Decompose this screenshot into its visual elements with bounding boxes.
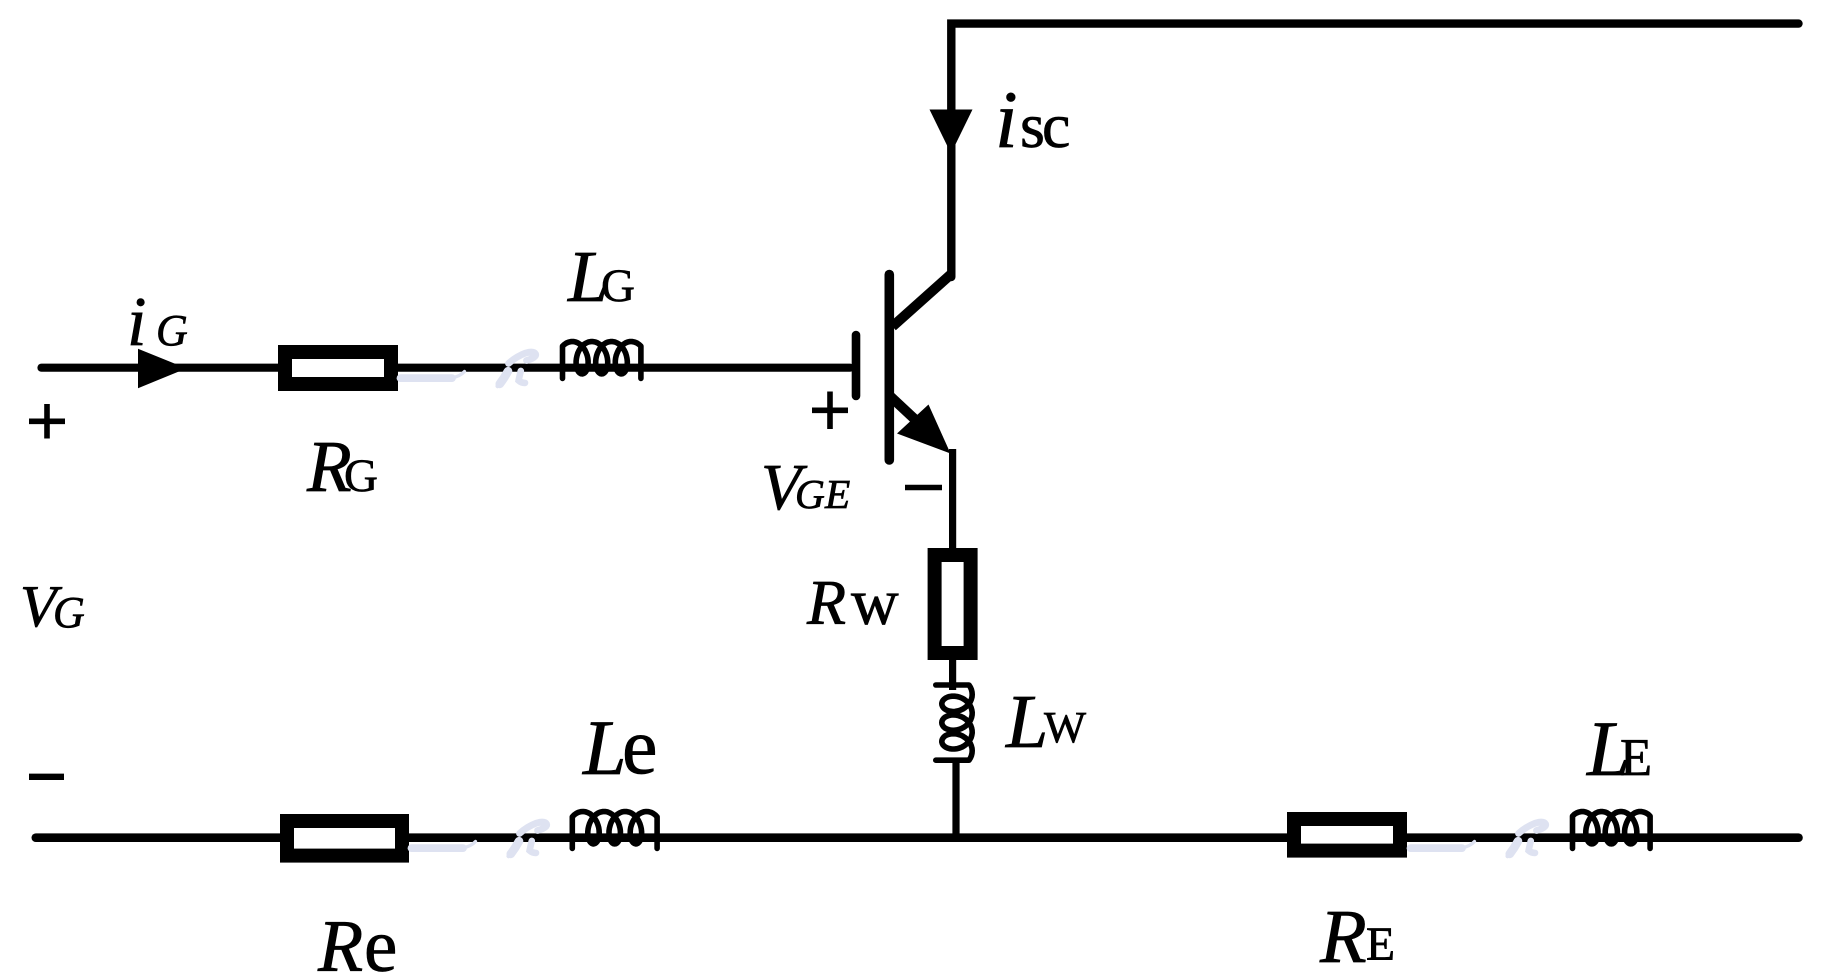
wire gate lead (from V_G source to gate) xyxy=(42,364,851,372)
watermark artifact near R_G xyxy=(401,352,536,386)
resistor R_W body xyxy=(935,555,971,653)
svg-text:L: L xyxy=(1005,680,1048,764)
svg-text:R: R xyxy=(317,906,363,977)
IGBT U1 gate bar xyxy=(852,335,861,396)
svg-text:G: G xyxy=(795,471,825,517)
IGBT U1 emitter lead xyxy=(891,397,937,440)
svg-text:G: G xyxy=(156,306,188,355)
svg-text:G: G xyxy=(601,260,635,312)
wire emitter down to R_W xyxy=(949,449,956,556)
inductor L_E coil xyxy=(1573,812,1651,849)
resistor R_E body xyxy=(1294,819,1400,851)
svg-text:R: R xyxy=(806,567,846,638)
svg-text:W: W xyxy=(1044,702,1086,752)
inductor L_W coil xyxy=(936,685,972,760)
arrowhead i_sc (current into collector) xyxy=(930,110,973,154)
svg-text:G: G xyxy=(53,588,85,637)
wire R_W to L_W xyxy=(949,659,956,690)
svg-text:R: R xyxy=(1319,894,1367,977)
svg-text:e: e xyxy=(622,703,658,791)
svg-text:E: E xyxy=(1620,729,1652,787)
node + (V_G positive terminal) xyxy=(29,404,65,439)
wire top bus and collector drop xyxy=(951,24,1798,277)
IGBT U1 emitter arrowhead xyxy=(897,405,951,454)
inductor L_G coil xyxy=(563,342,641,379)
svg-text:c: c xyxy=(1042,90,1070,161)
arrowhead i_G on gate wire xyxy=(138,349,187,388)
watermark artifact near R_e xyxy=(412,822,547,856)
svg-text:E: E xyxy=(824,471,850,517)
svg-text:G: G xyxy=(344,450,378,502)
inductor L_e coil xyxy=(572,812,657,849)
resistor R_e body xyxy=(287,821,402,856)
wire L_W down to emitter bus junction xyxy=(952,758,959,840)
node - (V_GE negative) xyxy=(905,485,942,490)
svg-text:i: i xyxy=(995,74,1018,165)
node - (V_G negative terminal) xyxy=(29,774,64,780)
svg-text:L: L xyxy=(582,704,626,791)
svg-text:i: i xyxy=(127,284,146,361)
IGBT U1 body bar xyxy=(884,275,894,461)
svg-text:E: E xyxy=(1366,919,1395,971)
IGBT U1 collector lead xyxy=(893,274,952,327)
resistor R_G body xyxy=(285,352,391,384)
node + (V_GE positive) xyxy=(812,392,848,430)
watermark artifact near R_E xyxy=(1411,822,1546,856)
wire bottom emitter bus xyxy=(36,833,1799,842)
svg-text:e: e xyxy=(364,905,397,977)
svg-text:w: w xyxy=(851,566,899,639)
